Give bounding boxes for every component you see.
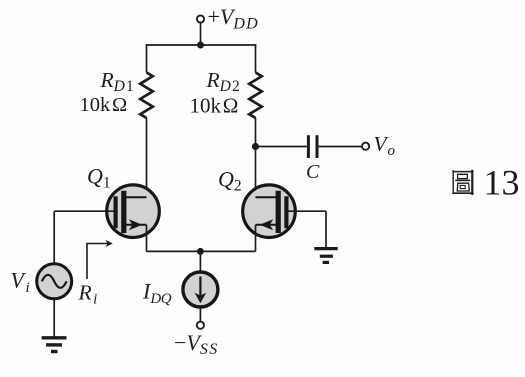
terminal +VDD bbox=[197, 15, 204, 22]
wire junction to current source bbox=[199, 251, 201, 272]
svg-text:RD1: RD1 bbox=[100, 68, 136, 95]
label -VSS bbox=[174, 330, 219, 358]
figure caption glyph (Chinese "tu") bbox=[452, 170, 473, 195]
label Q1 bbox=[87, 164, 111, 192]
transistor Q1 bbox=[107, 185, 160, 238]
wire RD2 to Q2 drain bbox=[255, 118, 257, 197]
svg-text:Q2: Q2 bbox=[218, 167, 242, 195]
wire junction to capacitor bbox=[256, 146, 307, 148]
label Q2 bbox=[218, 167, 242, 195]
node top junction bbox=[197, 42, 204, 49]
svg-text:C: C bbox=[306, 161, 320, 183]
svg-text:IDQ: IDQ bbox=[142, 279, 172, 308]
node drain/capacitor junction bbox=[252, 143, 259, 150]
label Ri bbox=[78, 281, 98, 308]
ground right bbox=[314, 249, 337, 263]
value label 10k ohm (RD1) bbox=[80, 94, 128, 116]
figure caption number 13 bbox=[484, 163, 520, 203]
wire top rail to RD2 bbox=[255, 44, 257, 73]
wire Q1 gate to input corner bbox=[54, 211, 113, 264]
terminal -VSS bbox=[197, 322, 204, 329]
wire top rail bbox=[147, 44, 256, 46]
svg-text:Vi: Vi bbox=[11, 268, 30, 297]
svg-text:10k Ω: 10k Ω bbox=[80, 94, 128, 116]
ground left bbox=[42, 338, 67, 352]
svg-text:Ri: Ri bbox=[78, 281, 98, 308]
wire Vi to ground bbox=[53, 299, 55, 338]
svg-text:10k Ω: 10k Ω bbox=[190, 93, 239, 117]
label Vi bbox=[11, 268, 30, 297]
svg-text:RD2: RD2 bbox=[206, 68, 242, 95]
wire current source to -VSS terminal bbox=[199, 307, 201, 322]
value label 10k ohm (RD2) bbox=[190, 93, 239, 117]
label RD2 bbox=[206, 68, 242, 95]
label IDQ bbox=[142, 279, 172, 308]
wire top rail to RD1 bbox=[146, 44, 148, 73]
node source junction bbox=[197, 248, 204, 255]
current source IDQ bbox=[183, 272, 218, 307]
svg-text:Vo: Vo bbox=[374, 132, 396, 159]
capacitor C bbox=[308, 135, 317, 158]
input resistance arrow Ri bbox=[87, 240, 113, 279]
terminal Vo bbox=[362, 143, 369, 150]
wire bottom rail bbox=[147, 250, 256, 252]
transistor Q2 bbox=[243, 185, 296, 238]
source Vi bbox=[37, 264, 72, 299]
wire Q2 source down bbox=[255, 225, 257, 252]
wire capacitor to Vo terminal bbox=[319, 146, 363, 148]
label Vo bbox=[374, 132, 396, 159]
wire RD1 to Q1 drain bbox=[146, 118, 148, 197]
label C bbox=[306, 161, 320, 183]
wire Q2 gate to ground bbox=[289, 211, 327, 248]
svg-text:+VDD: +VDD bbox=[208, 4, 259, 32]
wire Q1 source down bbox=[146, 225, 148, 252]
svg-text:13: 13 bbox=[484, 163, 520, 203]
resistor RD1 bbox=[140, 73, 153, 118]
label RD1 bbox=[100, 68, 136, 95]
wire VDD terminal to top rail bbox=[200, 23, 202, 45]
resistor RD2 bbox=[249, 73, 262, 118]
label +VDD bbox=[208, 4, 259, 32]
svg-text:Q1: Q1 bbox=[87, 164, 111, 192]
svg-text:−VSS: −VSS bbox=[174, 330, 219, 358]
